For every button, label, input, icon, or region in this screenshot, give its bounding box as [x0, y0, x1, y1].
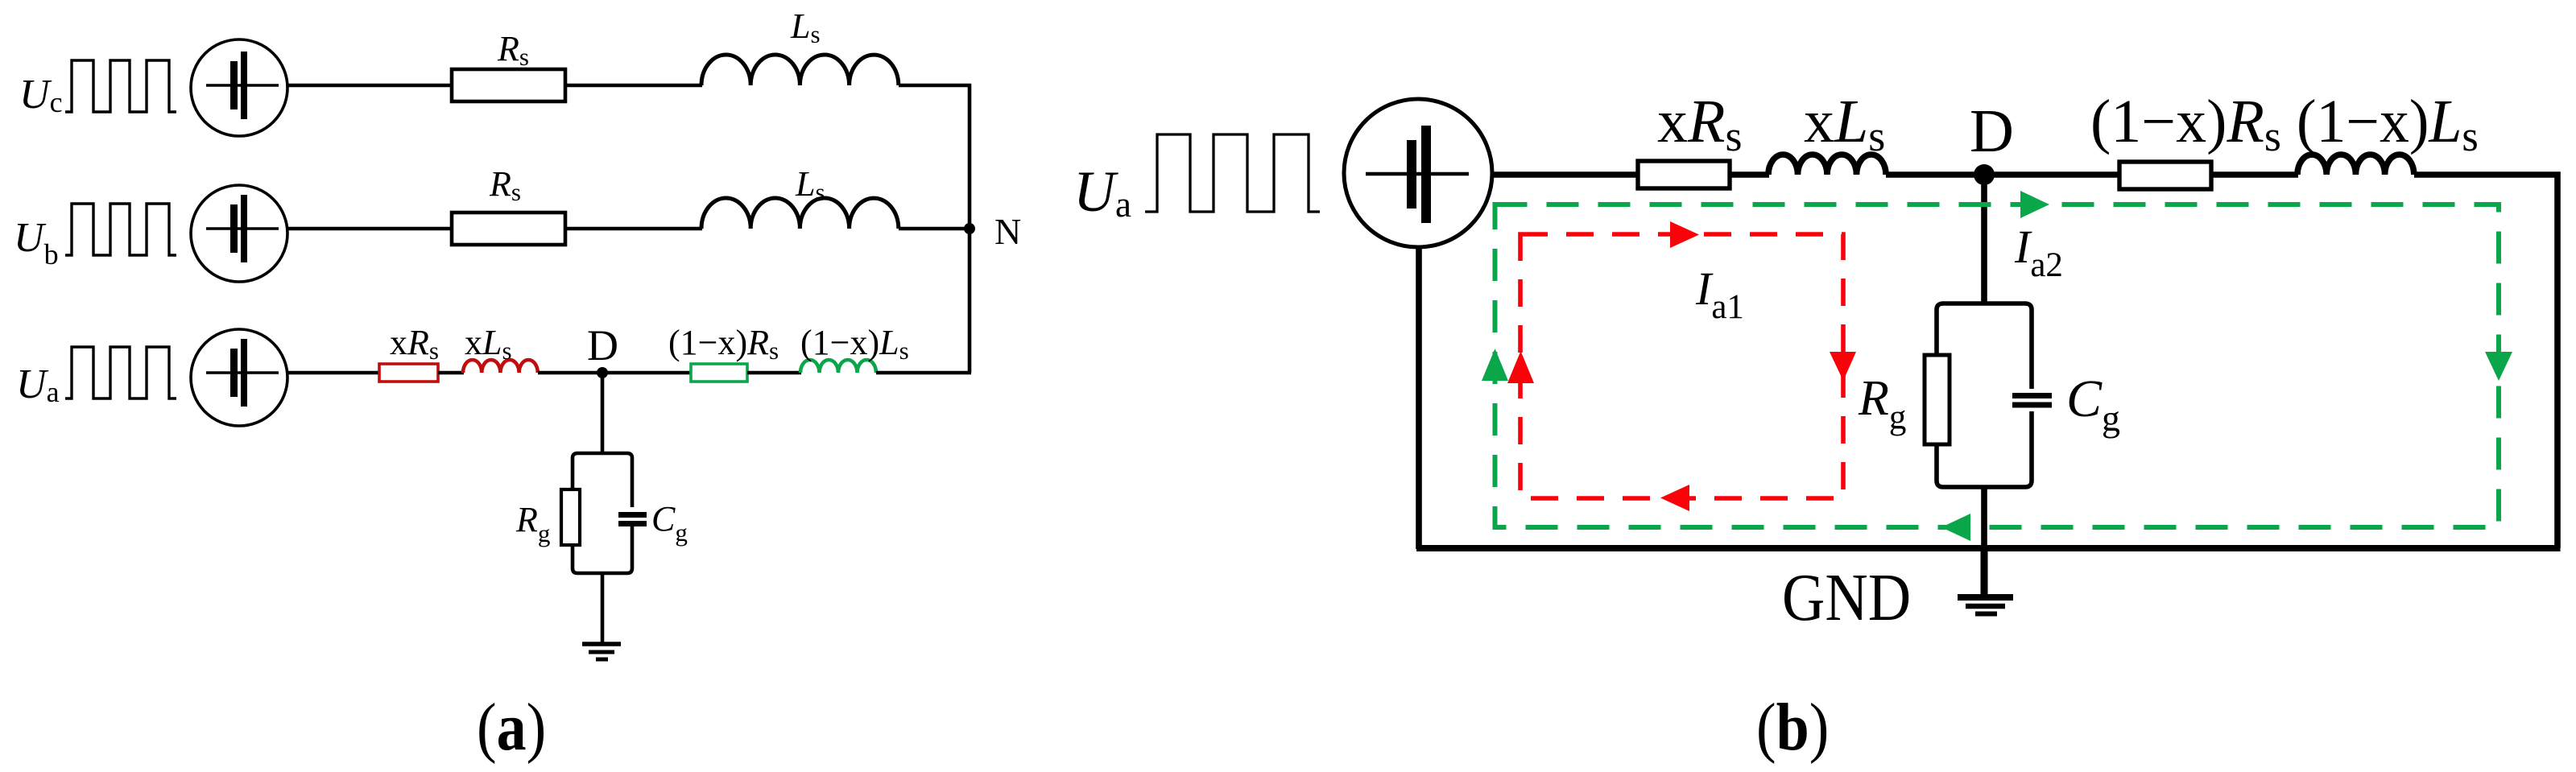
- ground symbol (b): [1958, 597, 2013, 614]
- svg-text:Ia1: Ia1: [1695, 262, 1744, 326]
- battery symbol (phase c): [206, 52, 279, 119]
- node D junction dot (b): [1974, 164, 1995, 185]
- wire (1-x)Rs to (1-x)Ls: [747, 371, 801, 375]
- battery symbol (b): [1366, 126, 1469, 223]
- svg-text:D: D: [587, 321, 618, 369]
- svg-text:Uc: Uc: [19, 72, 63, 118]
- svg-text:GND: GND: [1782, 560, 1911, 635]
- resistor (1-x)Rs (green): [691, 364, 747, 382]
- inductor Ls (phase c): [701, 55, 899, 85]
- wire source-c to Rs: [287, 84, 453, 88]
- ground stub (b): [1981, 546, 1988, 596]
- resistor Rg (a): [561, 489, 580, 545]
- svg-text:Ls: Ls: [790, 6, 821, 48]
- resistor Rs (phase b): [452, 213, 565, 245]
- resistor (1-x)Rs (b): [2119, 162, 2211, 189]
- inductor (1-x)Ls (b): [2297, 155, 2414, 175]
- wire node D down to tank (b): [1981, 175, 1987, 305]
- node D junction dot: [597, 367, 608, 378]
- red arrow right (top of Ia1): [1670, 221, 1699, 248]
- inductor xLs (red): [463, 360, 538, 373]
- square-wave symbol Ua (b): [1145, 134, 1320, 212]
- bottom wire GND rail (b): [1416, 545, 2561, 551]
- wire node D to (1-x)Rs: [602, 371, 693, 375]
- svg-text:N: N: [994, 211, 1021, 252]
- capacitor Cg (a): [618, 507, 647, 526]
- wire xRs to xLs (b): [1730, 171, 1769, 178]
- wire node D down to RC tank: [601, 373, 605, 455]
- svg-text:xLs: xLs: [465, 323, 512, 365]
- svg-text:(1−x)Rs: (1−x)Rs: [668, 323, 779, 365]
- resistor Rs (phase c): [452, 69, 565, 101]
- voltage source circle (phase b): [191, 185, 287, 282]
- wire source to xRs (b): [1491, 171, 1640, 178]
- svg-text:xRs: xRs: [1657, 88, 1742, 160]
- red arrow left (bottom of Ia1): [1660, 485, 1689, 511]
- svg-text:D: D: [1970, 97, 2014, 165]
- wire tank to ground (a): [601, 573, 605, 643]
- wire (1-x)Rs to (1-x)Ls (b): [2211, 171, 2298, 178]
- svg-text:xLs: xLs: [1804, 88, 1885, 160]
- svg-text:(a): (a): [477, 690, 546, 765]
- wire xLs to node D (b): [1886, 171, 1986, 178]
- wire Rs to Ls (phase b): [565, 227, 702, 231]
- resistor xRs (b): [1638, 161, 1730, 188]
- wire Ls to trunk (phase c): [899, 84, 971, 88]
- ground symbol (a): [582, 644, 621, 659]
- wire xLs to node D: [538, 371, 604, 375]
- inductor Ls (phase b): [701, 198, 899, 229]
- svg-text:Rg: Rg: [515, 500, 550, 547]
- svg-text:Rs: Rs: [497, 29, 529, 71]
- resistor xRs (red): [379, 364, 438, 382]
- wire xRs to xLs: [438, 371, 464, 375]
- parallel tank outline (b): [1937, 303, 2032, 487]
- square-wave symbol Uc: [65, 60, 176, 112]
- svg-text:Ls: Ls: [795, 164, 825, 206]
- svg-text:Cg: Cg: [2066, 369, 2120, 439]
- inductor xLs (b): [1768, 155, 1886, 175]
- wire source-b to Rs: [287, 227, 453, 231]
- resistor Rg (b): [1925, 355, 1950, 444]
- left return wire below source (b): [1416, 246, 1422, 549]
- svg-text:xRs: xRs: [390, 323, 439, 365]
- voltage source circle (b): [1344, 99, 1492, 247]
- wire Rs to Ls (phase c): [565, 84, 702, 88]
- green arrow right (top of Ia2): [2020, 191, 2049, 218]
- green arrow left (bottom of Ia2): [1941, 514, 1970, 541]
- svg-text:Rs: Rs: [489, 164, 521, 206]
- svg-text:Ia2: Ia2: [2014, 221, 2063, 284]
- square-wave symbol Ub: [65, 204, 176, 255]
- svg-text:(1−x)Ls: (1−x)Ls: [800, 323, 909, 365]
- red arrow up (left of Ia1): [1507, 351, 1534, 383]
- svg-text:Ub: Ub: [14, 215, 59, 270]
- svg-text:Cg: Cg: [651, 499, 688, 547]
- trunk wire to node N: [968, 84, 972, 373]
- wire (1-x)Ls to trunk: [876, 371, 971, 375]
- capacitor Cg (b): [2012, 389, 2052, 411]
- red arrow down (right of Ia1): [1830, 352, 1856, 381]
- wire Ls to node N: [899, 227, 971, 231]
- svg-text:Rg: Rg: [1858, 371, 1906, 436]
- inductor (1-x)Ls (green): [800, 360, 876, 373]
- wire source-a to xRs: [287, 371, 381, 375]
- green arrow down (right of Ia2): [2485, 352, 2512, 381]
- battery symbol (phase b): [206, 195, 279, 262]
- svg-text:(b): (b): [1756, 690, 1829, 765]
- svg-text:(1−x)Rs: (1−x)Rs: [2090, 88, 2281, 160]
- current loop Ia2 (green dashed): [1495, 204, 2500, 527]
- svg-text:Ua: Ua: [1073, 159, 1131, 225]
- battery symbol (phase a): [206, 339, 279, 407]
- wire node D to (1-x)Rs (b): [1984, 171, 2122, 178]
- svg-text:Ua: Ua: [16, 361, 60, 408]
- voltage source circle (phase c): [191, 39, 287, 136]
- wire (1-x)Ls to right corner (b): [2414, 175, 2557, 548]
- voltage source circle (phase a): [191, 329, 287, 426]
- node N junction dot: [964, 223, 975, 234]
- svg-text:(1−x)Ls: (1−x)Ls: [2297, 88, 2479, 160]
- parallel tank outline (a): [573, 453, 632, 573]
- green arrow up (left of Ia2): [1482, 349, 1508, 381]
- square-wave symbol Ua: [65, 347, 176, 398]
- wire tank to bottom rail (b): [1981, 487, 1987, 548]
- current loop Ia1 (red dashed): [1520, 234, 1843, 498]
